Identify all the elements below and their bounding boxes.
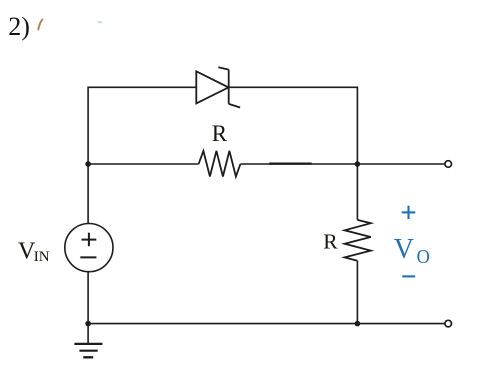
label VIN <box>18 239 50 265</box>
svg-text:2): 2) <box>8 12 30 41</box>
wire left vertical upper <box>87 87 89 224</box>
svg-text:V: V <box>394 234 414 265</box>
source VIN (circle with plus/minus) <box>65 224 113 272</box>
wire middle left segment <box>88 163 199 165</box>
wire right vertical upper <box>356 87 358 220</box>
wire right vertical lower <box>356 261 358 324</box>
wire overdrawn darker sub-segment on middle wire <box>269 162 311 164</box>
wire middle right segment <box>240 163 445 165</box>
node junction bottom-right <box>355 321 361 327</box>
svg-text:R: R <box>323 230 338 254</box>
svg-text:O: O <box>417 246 430 268</box>
label plus of output polarity <box>402 206 416 219</box>
terminal output top <box>445 161 452 168</box>
wire top-right segment <box>229 86 358 88</box>
resistor R2 (right, vertical zigzag) <box>345 220 371 261</box>
wire left vertical lower <box>87 272 89 324</box>
svg-text:R: R <box>212 121 228 146</box>
node junction right-middle <box>355 161 361 167</box>
node junction left-middle <box>85 161 91 167</box>
annotation faint blue speck <box>98 21 103 23</box>
svg-text:IN: IN <box>34 249 50 265</box>
wire bottom segment <box>88 323 445 325</box>
node junction bottom-left <box>85 321 91 327</box>
terminal output bottom <box>445 320 452 327</box>
ground symbol <box>74 324 102 358</box>
wire top-left segment <box>88 86 196 88</box>
annotation faint tick <box>38 20 42 30</box>
label minus of output polarity <box>402 275 415 277</box>
resistor R1 (middle, horizontal zigzag) <box>199 151 241 177</box>
label VO <box>394 234 430 268</box>
zener diode D1 <box>196 67 240 107</box>
